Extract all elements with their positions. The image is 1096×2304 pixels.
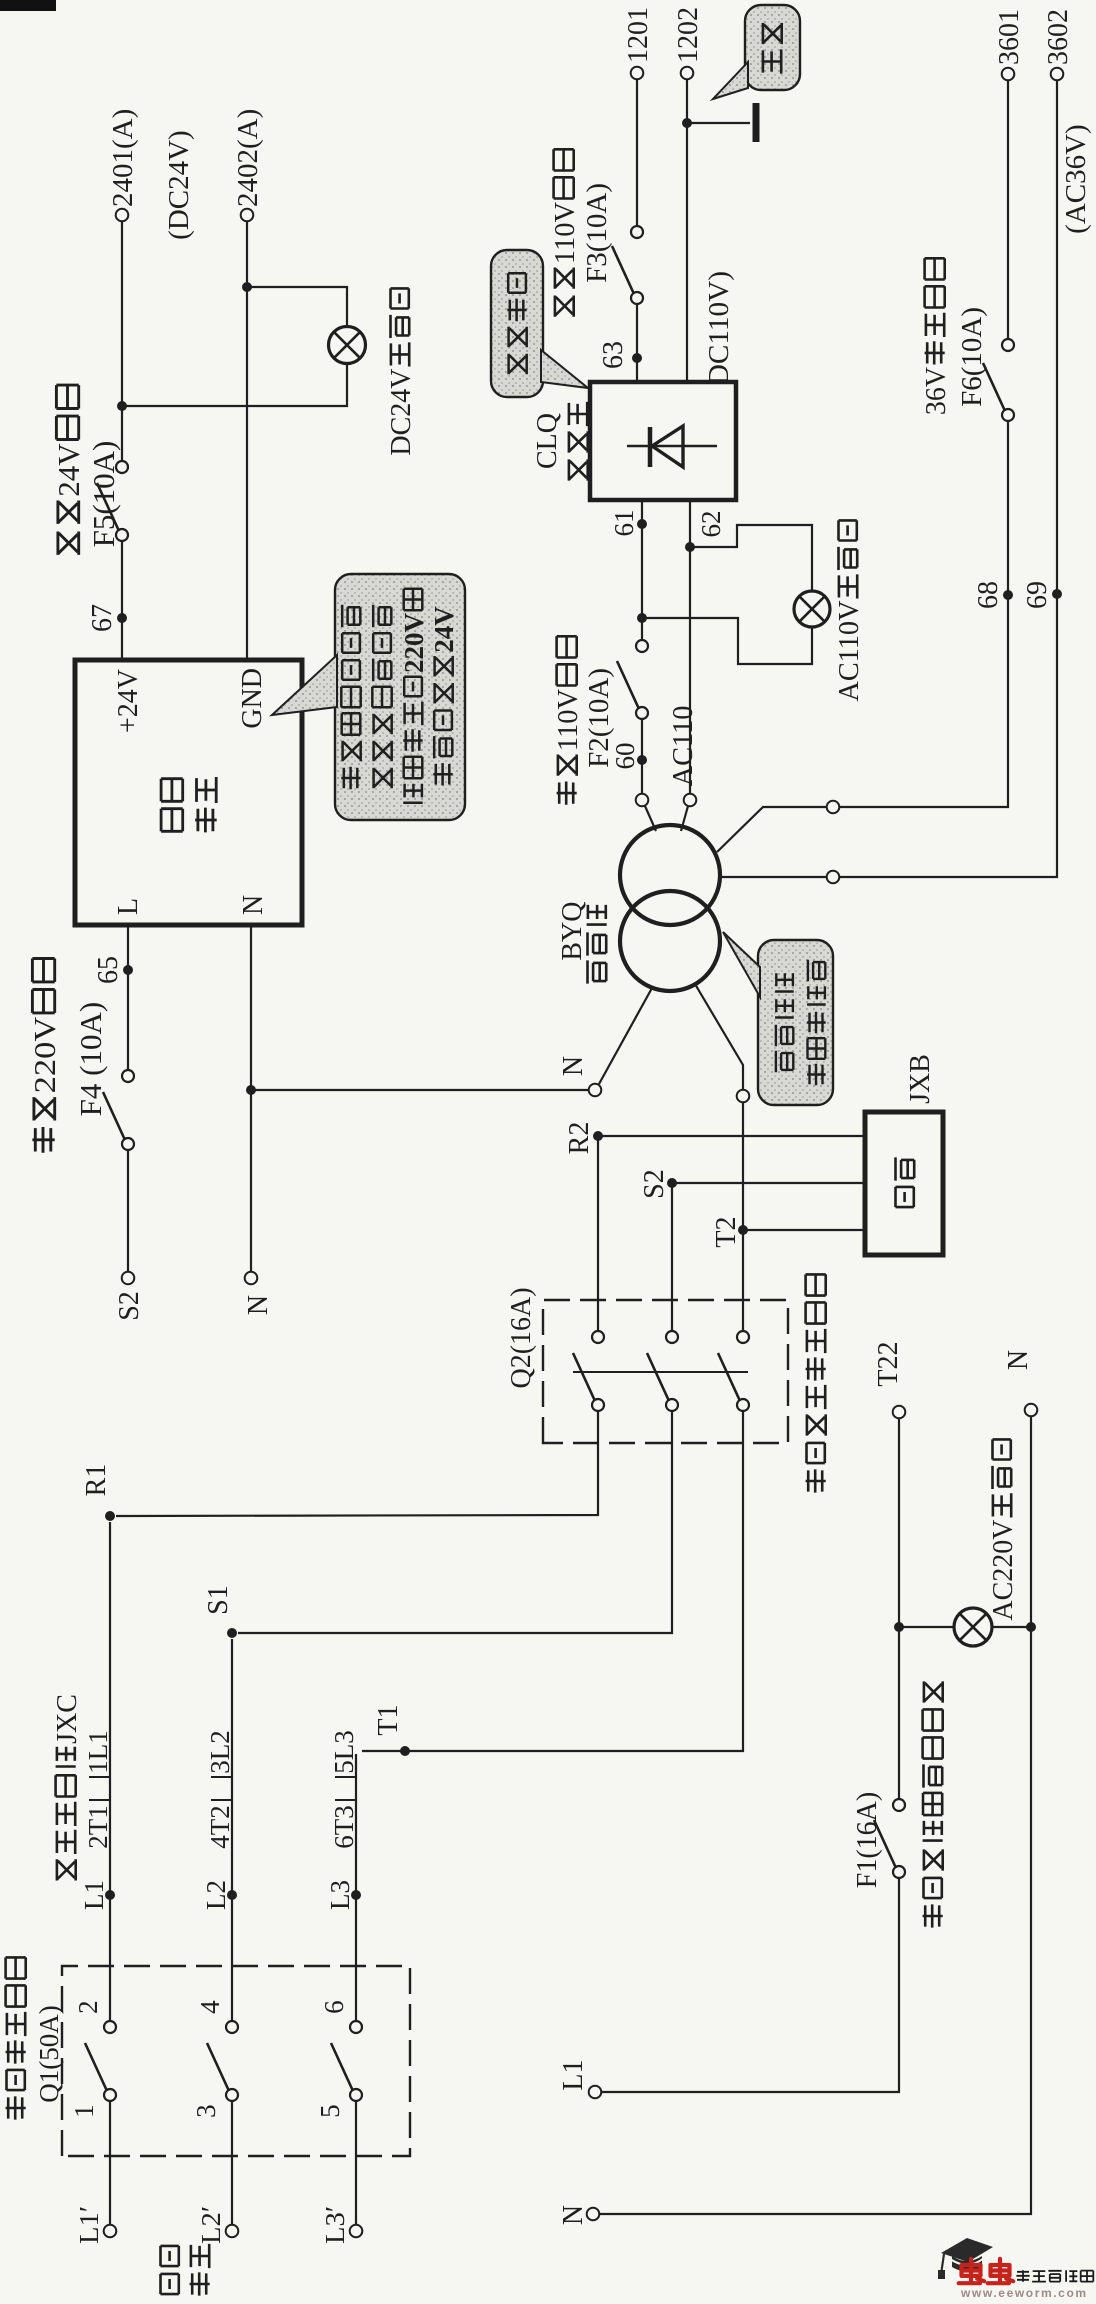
- diode symbol inside CLQ: [627, 426, 717, 467]
- wire F4 to terminal S2: [127, 1150, 129, 1272]
- label terminal 1201: [623, 7, 654, 63]
- lamp DC24V indicator: [329, 327, 366, 364]
- svg-text:2T1: 2T1: [83, 1805, 113, 1849]
- terminal primary b: [684, 794, 697, 807]
- callout note 此装置具有降压整流稳压等作用输入是220V输出是直流24V: [272, 574, 465, 820]
- label AC110V指示灯: [834, 520, 865, 701]
- svg-text:S2: S2: [114, 1291, 145, 1321]
- node R1: [105, 1511, 115, 1521]
- label 直流110V开关: [550, 149, 581, 316]
- svg-text:24V: 24V: [429, 606, 459, 653]
- svg-text:6T3: 6T3: [329, 1805, 359, 1849]
- ground earth bar: [753, 103, 760, 142]
- svg-text:Q1(50A): Q1(50A): [34, 2005, 64, 2103]
- phase sequence relay JXB box: [865, 1112, 943, 1255]
- wire secondary to T2 diagonal: [695, 984, 743, 1090]
- svg-text:F3(10A): F3(10A): [581, 183, 613, 283]
- label pin 1: [69, 2104, 99, 2118]
- node junction AC110 lamp return: [637, 613, 647, 623]
- switch F1 电梯照明保险开关盒: [874, 1799, 905, 1878]
- svg-text:F2(10A): F2(10A): [583, 668, 615, 768]
- svg-text:3601: 3601: [994, 9, 1025, 65]
- JXC terminal ticks row L2: [211, 1799, 232, 1801]
- terminal 1202: [681, 67, 694, 80]
- node S1: [227, 1628, 237, 1638]
- label N near transformer: [558, 1056, 589, 1076]
- svg-text:69: 69: [1022, 581, 1053, 609]
- label terminal 2402(A): [232, 109, 264, 207]
- lamp AC220V indicator: [954, 1608, 992, 1646]
- pin label L: [113, 898, 144, 915]
- connector circle on F6 line: [827, 801, 840, 814]
- label node L1: [79, 1880, 109, 1910]
- wire secondary to N terminal diagonal: [599, 988, 652, 1084]
- pin label GND: [237, 668, 268, 729]
- svg-text:F5(10A): F5(10A): [86, 441, 121, 548]
- label 电梯照明保险开关盒: [923, 1681, 943, 1927]
- watermark 虫虫 red logo text: [959, 2259, 1014, 2283]
- switch F4 交流220V开关: [103, 1070, 134, 1150]
- label 三相电源: [161, 2246, 179, 2294]
- node S2: [667, 1178, 677, 1188]
- Q2 mechanical link line: [573, 1371, 748, 1373]
- label F3(10A): [581, 183, 613, 283]
- terminal N right: [1025, 1404, 1038, 1417]
- dashed enclosure Q2: [543, 1300, 788, 1443]
- svg-text:GND: GND: [237, 668, 268, 729]
- label net AC110: [668, 706, 699, 787]
- svg-text:3: 3: [191, 2104, 221, 2118]
- svg-text:AC110: AC110: [668, 706, 699, 787]
- svg-text:N: N: [1003, 1350, 1034, 1370]
- wire Q1 pole1 to L1': [109, 2101, 111, 2225]
- wire DC24V lamp feed: [247, 287, 347, 326]
- wire Q1 pole2 to L2': [231, 2101, 233, 2225]
- node T1: [400, 1746, 410, 1756]
- label node 62: [696, 511, 726, 538]
- terminal S2: [122, 1272, 135, 1285]
- terminal 2402(A): [241, 209, 254, 222]
- label F6(10A): [956, 307, 988, 407]
- svg-text:F1(16A): F1(16A): [852, 1792, 883, 1888]
- svg-text:JXB: JXB: [905, 1054, 936, 1104]
- node T2: [738, 1225, 748, 1235]
- svg-text:N: N: [243, 1295, 274, 1315]
- node L3: [351, 1890, 361, 1900]
- svg-text:N: N: [558, 1056, 589, 1076]
- label F4 (10A): [73, 1002, 108, 1117]
- label node 69: [1022, 581, 1053, 609]
- terminal L3': [350, 2225, 363, 2238]
- label terminal 3601: [994, 9, 1025, 65]
- svg-text:T22: T22: [873, 1342, 904, 1387]
- switch Q1 pole 1: [85, 2021, 116, 2101]
- label node S2: [639, 1169, 670, 1199]
- svg-text:1202: 1202: [673, 7, 704, 63]
- terminal 3602: [1051, 68, 1064, 81]
- svg-text:67: 67: [87, 604, 118, 632]
- connector circle on T2 line: [737, 1090, 750, 1103]
- wire T2 drop to JXB: [743, 1229, 865, 1231]
- node 60: [637, 755, 647, 765]
- label node 68: [973, 581, 1004, 609]
- svg-text:JXC: JXC: [52, 1694, 83, 1744]
- svg-text:1: 1: [69, 2104, 99, 2118]
- wire F5 to PSU +24V pin, node 67: [121, 541, 123, 660]
- switch F3 直流110V开关: [612, 226, 643, 304]
- switch Q1 pole 2: [207, 2021, 238, 2101]
- label node L3: [325, 1880, 355, 1910]
- label terminal 3602: [1043, 9, 1074, 65]
- label terminal L2': [196, 2206, 226, 2244]
- label 交流220V 开关: [27, 959, 62, 1153]
- label terminal N right: [1003, 1350, 1034, 1370]
- node 67: [117, 613, 127, 623]
- wire T22 to switch F1: [898, 1418, 900, 1799]
- switch F2 交流110V开关: [617, 640, 648, 719]
- terminal 3601: [1002, 68, 1015, 81]
- label terminal S2: [114, 1291, 145, 1321]
- node 62: [685, 542, 695, 552]
- node 63: [632, 353, 642, 363]
- wire CLQ pin 61 to switch F2: [641, 500, 643, 640]
- svg-text:2402(A): 2402(A): [232, 109, 264, 207]
- label 2T1: [83, 1805, 113, 1849]
- transformer BYQ secondary circle: [620, 891, 720, 991]
- wire 2402 line to PSU GND pin: [246, 221, 248, 660]
- label 极限接触器JXC: [52, 1694, 83, 1880]
- power supply box 开关电源 U1: [75, 660, 302, 925]
- terminal N bottom: [587, 2208, 600, 2221]
- wire R2 drop to JXB: [598, 1135, 865, 1137]
- label node R1: [81, 1464, 112, 1497]
- label terminal 2401(A): [107, 109, 139, 207]
- svg-text:L2′: L2′: [196, 2206, 226, 2244]
- label 相序: [896, 1157, 915, 1207]
- label 3L2: [205, 1730, 235, 1774]
- label pin 4: [195, 2000, 225, 2014]
- svg-text:L1′: L1′: [74, 2206, 104, 2244]
- node junction N branch: [246, 1085, 256, 1095]
- terminal L1': [104, 2225, 117, 2238]
- switch Q2 pole 1: [573, 1331, 604, 1411]
- svg-text:AC220V: AC220V: [988, 1520, 1019, 1621]
- svg-text:(DC24V): (DC24V): [163, 130, 195, 240]
- svg-text:220V: 220V: [399, 613, 429, 674]
- switch Q2 pole 3: [718, 1331, 749, 1411]
- wire transformer bottom tap to 3602 line: [720, 80, 1057, 877]
- svg-text:1L1: 1L1: [83, 1730, 113, 1774]
- node 61: [637, 519, 647, 529]
- svg-text:T2: T2: [711, 1217, 742, 1248]
- wire 1201 to switch F3: [636, 78, 638, 226]
- label 36V电源开关: [921, 258, 952, 415]
- node junction AC220 lamp on N line: [1026, 1622, 1036, 1632]
- svg-text:N: N: [238, 895, 269, 915]
- label CLQ: [532, 413, 563, 469]
- label pin 2: [73, 2000, 103, 2014]
- label net (DC110V): [703, 271, 735, 395]
- label 电梯电源开关: [6, 1957, 26, 2119]
- svg-text:62: 62: [696, 511, 726, 538]
- rectifier bridge CLQ box: [590, 382, 736, 500]
- label 5L3: [329, 1730, 359, 1774]
- label net (DC24V): [163, 130, 195, 240]
- label pin 6: [319, 2000, 349, 2014]
- svg-text:1201: 1201: [623, 7, 654, 63]
- svg-text:65: 65: [93, 956, 124, 984]
- svg-text:F6(10A): F6(10A): [956, 307, 988, 407]
- node 68: [1003, 590, 1013, 600]
- label node T2: [711, 1217, 742, 1248]
- svg-text:CLQ: CLQ: [532, 413, 563, 469]
- wire N branch to transformer: [251, 1089, 589, 1091]
- connector circle on 3602 line: [827, 871, 840, 884]
- wire S2 drop to JXB: [672, 1182, 865, 1184]
- wire AC110V lamp return: [642, 618, 812, 664]
- svg-text:AC110V: AC110V: [834, 601, 865, 702]
- label Q1(50A): [34, 2005, 64, 2103]
- label terminal L3': [320, 2206, 350, 2244]
- svg-text:DC24V: DC24V: [386, 369, 417, 456]
- svg-text:24V: 24V: [51, 443, 86, 497]
- node R2: [593, 1131, 603, 1141]
- svg-text:L1: L1: [558, 2060, 589, 2091]
- label pin 5: [315, 2104, 345, 2118]
- label 交流110V开关: [553, 636, 584, 804]
- label 变压器: [587, 905, 607, 984]
- node junction lamp return on +24V line: [117, 401, 127, 411]
- label F5(10A): [86, 441, 121, 548]
- wire F6 to terminal 3601: [1007, 80, 1009, 339]
- svg-text:T1: T1: [373, 1705, 404, 1736]
- svg-text:68: 68: [973, 581, 1004, 609]
- svg-text:L1: L1: [79, 1880, 109, 1910]
- svg-text:4: 4: [195, 2000, 225, 2014]
- svg-text:(AC36V): (AC36V): [1060, 124, 1092, 234]
- label node 67: [87, 604, 118, 632]
- svg-text:220V: 220V: [27, 1016, 62, 1093]
- node 65: [123, 965, 133, 975]
- svg-text:110V: 110V: [553, 689, 584, 751]
- svg-text:2401(A): 2401(A): [107, 109, 139, 207]
- wire AC220V lamp to N line: [992, 1626, 1031, 1628]
- svg-text:5L3: 5L3: [329, 1730, 359, 1774]
- label 4T2: [205, 1805, 235, 1849]
- wire F3 to CLQ pin 63: [636, 304, 638, 382]
- wire AC220V lamp feed: [899, 1626, 954, 1628]
- svg-text:36V: 36V: [921, 367, 952, 415]
- label AC220V指示灯: [988, 1439, 1019, 1620]
- wire F2 to transformer primary: [641, 719, 643, 794]
- callout 整流电路: [491, 250, 588, 397]
- svg-text:63: 63: [598, 341, 629, 369]
- label node 60: [610, 743, 640, 770]
- svg-text:+24V: +24V: [113, 669, 144, 733]
- node L1: [105, 1890, 115, 1900]
- label pin 3: [191, 2104, 221, 2118]
- label F2(10A): [583, 668, 615, 768]
- svg-text:3L2: 3L2: [205, 1730, 235, 1774]
- pin label +24V: [113, 669, 144, 733]
- label DC24V指示灯: [386, 288, 417, 455]
- label node 65: [93, 956, 124, 984]
- svg-text:N: N: [558, 2205, 589, 2225]
- svg-text:L3: L3: [325, 1880, 355, 1910]
- wire F1 to terminal L1: [601, 1878, 899, 2092]
- watermark graduation cap icon: [938, 2238, 993, 2279]
- wire 2401 line to switch F5: [121, 221, 123, 461]
- label BYQ: [557, 902, 588, 961]
- wire phase row 1 JXC: [109, 1522, 111, 2021]
- switch Q2 pole 2: [647, 1331, 678, 1411]
- node 69: [1052, 589, 1062, 599]
- label 电梯控制电源开关: [806, 1274, 826, 1492]
- wire phase row 2 JXC: [231, 1639, 233, 2021]
- wire N bottom run: [599, 1416, 1031, 2214]
- terminal 2401(A): [116, 209, 129, 222]
- svg-text:www.eeworm.com: www.eeworm.com: [960, 2286, 1088, 2299]
- node junction AC220 lamp on T22 line: [894, 1622, 904, 1632]
- terminal primary a: [636, 794, 649, 807]
- wire 1202 to CLQ positive pin: [686, 78, 688, 382]
- wire AC110V lamp feed: [690, 525, 812, 591]
- label node L2: [201, 1880, 231, 1910]
- svg-text:110V: 110V: [550, 202, 581, 264]
- wire primary b diagonal: [681, 806, 688, 831]
- svg-text:S2: S2: [639, 1169, 670, 1199]
- JXC terminal ticks row L1: [89, 1799, 110, 1801]
- terminal T22: [893, 1406, 906, 1419]
- svg-text:4T2: 4T2: [205, 1805, 235, 1849]
- svg-text:(DC110V): (DC110V): [703, 271, 735, 395]
- terminal N left: [245, 1272, 258, 1285]
- label node R2: [564, 1122, 595, 1155]
- svg-text:2: 2: [73, 2000, 103, 2014]
- label terminal 1202: [673, 7, 704, 63]
- dashed enclosure Q1: [62, 1966, 410, 2156]
- wire ground lead: [687, 122, 750, 124]
- node junction on 2402 line: [242, 282, 252, 292]
- label 1L1: [83, 1730, 113, 1774]
- svg-text:BYQ: BYQ: [557, 902, 588, 961]
- terminal 1201: [631, 67, 644, 80]
- wire CLQ pin 62 to transformer primary: [689, 500, 691, 794]
- label 直流24V开关: [51, 385, 86, 555]
- wire PSU L pin to switch F4: [127, 925, 129, 1070]
- svg-text:6: 6: [319, 2000, 349, 2014]
- label 开关电源: [161, 779, 183, 832]
- lamp AC110V indicator: [794, 591, 830, 627]
- label node T1: [373, 1705, 404, 1736]
- label terminal L1: [558, 2060, 589, 2091]
- wire primary a diagonal: [645, 806, 656, 831]
- switch F6 36V电源开关: [983, 339, 1014, 421]
- svg-text:Q2(16A): Q2(16A): [506, 1287, 537, 1388]
- label Q2(16A): [506, 1287, 537, 1388]
- svg-text:61: 61: [609, 510, 639, 537]
- label JXB: [905, 1054, 936, 1104]
- svg-text:5: 5: [315, 2104, 345, 2118]
- wire Q2 pole2 to S1: [238, 1411, 672, 1633]
- label terminal N: [243, 1295, 274, 1315]
- wire phase row 3 JXC: [355, 1754, 357, 2021]
- label node 63: [598, 341, 629, 369]
- terminal L1 lighting: [589, 2086, 602, 2099]
- label node 61: [609, 510, 639, 537]
- svg-text:3602: 3602: [1043, 9, 1074, 65]
- wire DC24V lamp return: [122, 364, 347, 406]
- callout 接地: [713, 5, 800, 99]
- wire T2 line to Q2: [742, 1102, 744, 1337]
- wire Q2 pole1 to R1: [116, 1411, 598, 1516]
- terminal L2': [226, 2225, 239, 2238]
- switch Q1 pole 3: [331, 2021, 362, 2101]
- watermark 电子下载站 text: [1016, 2270, 1093, 2282]
- JXC terminal ticks row L3: [335, 1799, 356, 1801]
- node L2: [227, 1890, 237, 1900]
- svg-text:L2: L2: [201, 1880, 231, 1910]
- svg-text:R2: R2: [564, 1122, 595, 1155]
- wire Q2 pole3 to T1: [362, 1411, 743, 1751]
- node junction ground tap on 1202 line: [682, 118, 692, 128]
- svg-text:L3′: L3′: [320, 2206, 350, 2244]
- wire transformer tap to F6 line: [717, 421, 1008, 852]
- callout 变压器用两个圆表示: [723, 932, 833, 1105]
- wire S2 row to Q2: [671, 1183, 673, 1337]
- terminal transformer N: [589, 1084, 602, 1097]
- label 整流桥: [569, 402, 588, 481]
- label node S1: [203, 1585, 234, 1615]
- pin label N: [238, 895, 269, 915]
- wire PSU N pin to terminal N: [250, 925, 252, 1272]
- svg-text:R1: R1: [81, 1464, 112, 1497]
- svg-text:F4 (10A): F4 (10A): [73, 1002, 108, 1117]
- label terminal T22: [873, 1342, 904, 1387]
- label F1(16A): [852, 1792, 883, 1888]
- label terminal N bottom: [558, 2205, 589, 2225]
- switch F5 直流24V开关: [97, 461, 128, 541]
- svg-text:L: L: [113, 898, 144, 915]
- label net (AC36V): [1060, 124, 1092, 234]
- wire Q1 pole3 to L3': [355, 2101, 357, 2225]
- label terminal L1': [74, 2206, 104, 2244]
- wire R2 row to Q2: [597, 1136, 599, 1337]
- label 6T3: [329, 1805, 359, 1849]
- svg-text:S1: S1: [203, 1585, 234, 1615]
- transformer BYQ primary circle: [620, 825, 720, 925]
